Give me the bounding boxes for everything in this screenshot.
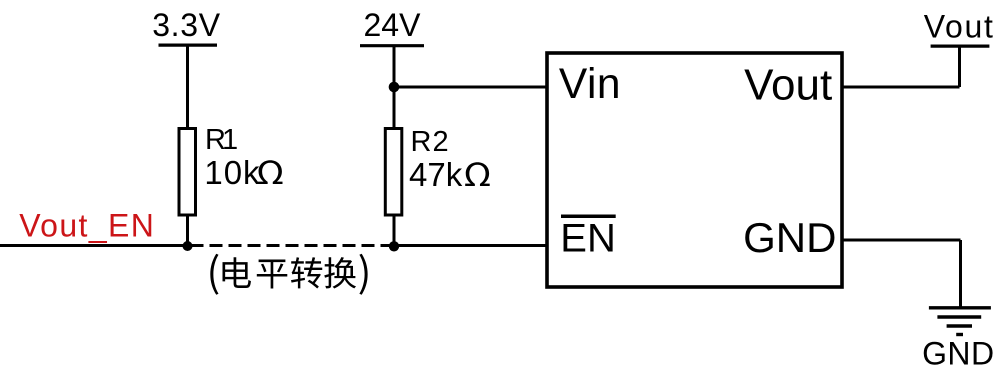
- svg-text:47k: 47k: [409, 156, 463, 193]
- ground symbol: [929, 308, 991, 335]
- svg-text:Vout_EN: Vout_EN: [19, 208, 155, 244]
- svg-text:EN: EN: [560, 217, 616, 261]
- regulator IC U1 body: [547, 53, 842, 287]
- wire 24V to R2: [393, 46, 396, 130]
- dashed wire node A to node B (level shift): [191, 244, 394, 247]
- wire Vout_EN input to node A: [0, 244, 189, 247]
- resistor R1: [179, 129, 196, 216]
- wire R2 to node B: [393, 215, 396, 248]
- svg-text:3.3V: 3.3V: [152, 7, 221, 43]
- svg-text:Vout: Vout: [924, 9, 995, 45]
- wire GND pin to ground: [842, 239, 961, 242]
- wire Vout pin to output: [842, 86, 960, 89]
- svg-text:Vout: Vout: [744, 60, 832, 109]
- svg-text:R2: R2: [411, 126, 449, 158]
- output rail Vout bar: [931, 44, 990, 47]
- svg-text:Vin: Vin: [559, 61, 621, 108]
- svg-text:GND: GND: [922, 336, 994, 372]
- wire R1 to node A: [186, 215, 189, 248]
- resistor R2: [385, 129, 402, 216]
- wire node B to EN pin: [394, 244, 547, 247]
- node A junction dot: [183, 241, 193, 251]
- EN active-low overline: [561, 215, 616, 219]
- annotation (level conversion) chinese: [210, 254, 367, 295]
- node C junction dot: [389, 82, 400, 93]
- wire output riser: [958, 46, 961, 87]
- svg-text:24V: 24V: [364, 7, 422, 43]
- svg-text:10k: 10k: [204, 154, 260, 191]
- svg-text:R1: R1: [205, 124, 238, 156]
- svg-text:GND: GND: [743, 214, 836, 261]
- wire node C to Vin pin: [394, 86, 547, 89]
- wire ground drop: [959, 240, 962, 308]
- power rail 24V bar: [360, 44, 424, 47]
- power rail 3.3V bar: [159, 43, 218, 46]
- node B junction dot: [389, 241, 399, 251]
- wire 3.3V to R1: [186, 45, 189, 130]
